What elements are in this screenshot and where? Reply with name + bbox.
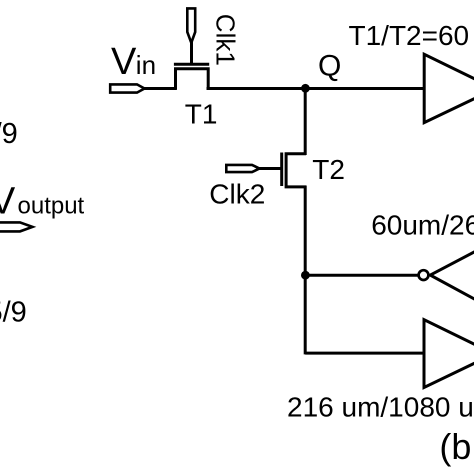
svg-text:T1: T1: [185, 99, 218, 130]
wire lower node to inverter bubble: [305, 274, 418, 277]
wire T1 drain to node Q: [207, 87, 426, 90]
transistor T1: [174, 64, 209, 89]
input terminal Vin arrow: [110, 84, 144, 92]
node Q junction dot: [301, 84, 310, 93]
svg-text:5/9: 5/9: [0, 118, 18, 150]
transistor T2: [282, 153, 306, 187]
inverter U2 (faces left, base cropped at right edge): [430, 251, 474, 299]
svg-text:(b: (b: [439, 426, 471, 467]
wire Clk1 to T1 gate: [190, 42, 193, 65]
partial label V_output (cropped at left edge): [0, 181, 85, 223]
svg-text:V: V: [0, 181, 16, 223]
svg-text:T1/T2=60: T1/T2=60: [349, 20, 470, 51]
wire T2 source down to lower node: [304, 186, 307, 355]
svg-text:T2: T2: [312, 154, 345, 185]
label Vin: [111, 41, 156, 83]
svg-text:output: output: [18, 193, 85, 220]
svg-text:Clk1: Clk1: [211, 14, 241, 66]
clock terminal Clk1 arrow: [187, 8, 195, 42]
svg-text:5/9: 5/9: [0, 296, 27, 328]
wire Clk2 to T2 gate: [259, 167, 282, 170]
svg-text:V: V: [111, 41, 137, 83]
wire node Q down to T2 drain: [304, 88, 307, 155]
svg-text:in: in: [136, 50, 156, 80]
svg-text:216 um/1080 um: 216 um/1080 um: [287, 391, 474, 422]
buffer U3 (bottom, apex cropped at right edge): [424, 320, 474, 388]
wire Vin to T1 source: [144, 87, 177, 90]
lower junction dot: [301, 271, 310, 280]
buffer U1 (top, apex cropped at right edge): [424, 54, 474, 122]
clock terminal Clk2 arrow: [226, 165, 259, 172]
inverter U2 bubble: [419, 270, 429, 280]
svg-text:Clk2: Clk2: [209, 179, 265, 210]
output terminal V_output arrow: [0, 222, 33, 231]
svg-text:60um/260um: 60um/260um: [371, 210, 474, 241]
svg-text:Q: Q: [318, 49, 341, 82]
wire lower node to buffer U3: [305, 352, 425, 355]
